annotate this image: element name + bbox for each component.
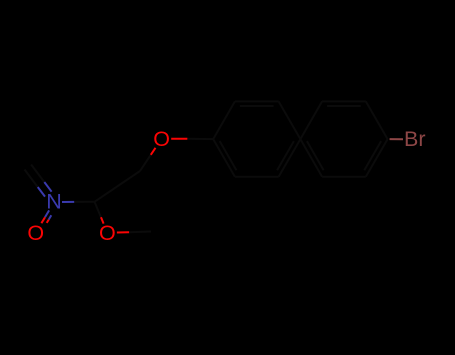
ring2 edge TL-TR (double) [322,100,366,102]
bond N=C6 (methylene, symmetric double) [44,182,51,192]
ring2 edge L-TL [300,101,322,139]
ring1 edge R-BR (double) [279,139,301,177]
ring1 edge BR-BL [235,176,279,178]
ring1 edge TL-TR (double) [235,100,279,102]
ring2 edge BL-L (double) [300,139,322,177]
bond ring2-Br (C-Br) [390,138,403,140]
bond N=O3 (N-oxide, double) [45,210,49,217]
svg-text:N: N [46,190,62,214]
bond C2-O2 [95,202,102,218]
ring2 edge BR-BL [322,176,366,178]
ring1 edge L-TL [213,101,235,139]
bond O1-ring1 [171,138,187,140]
ring1 edge BL-L (double) [213,139,235,177]
bond C2-CH2 [95,171,141,202]
svg-text:O: O [153,127,170,151]
svg-text:O: O [27,221,44,245]
ring2 edge R-BR (double) [366,139,388,177]
bond CH2-O1 [140,155,151,171]
bond O2-CMe (methoxy) [117,231,129,233]
ring2 edge TR-R [366,101,388,139]
svg-text:Br: Br [404,127,426,151]
ring1 edge TR-R [279,101,301,139]
bond N-C2 [62,201,74,203]
svg-text:O: O [99,221,116,245]
